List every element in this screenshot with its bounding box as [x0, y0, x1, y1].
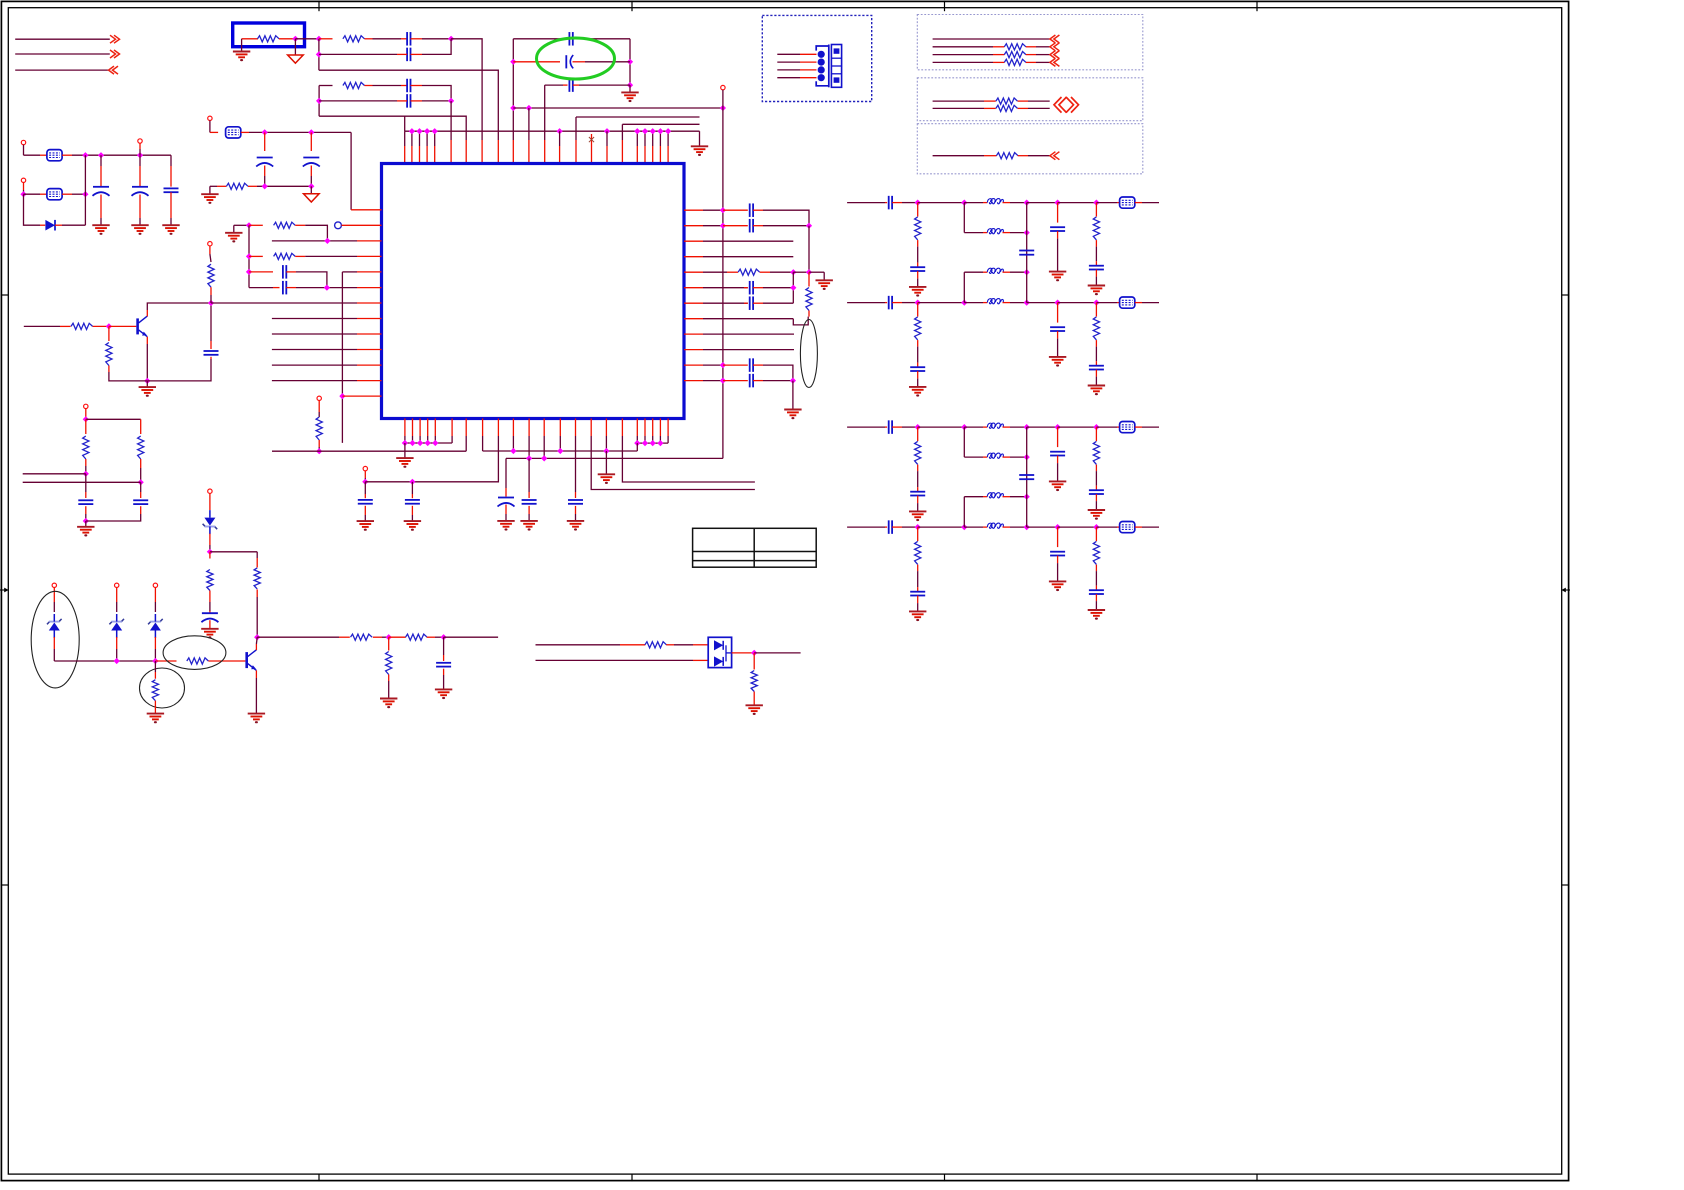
wire [506, 457, 723, 459]
junction [409, 479, 415, 485]
wire [933, 38, 1050, 40]
wire [450, 140, 452, 164]
wire (vertical) [544, 85, 546, 140]
off-page arrow [1050, 43, 1060, 51]
wire [411, 38, 423, 40]
ground [497, 521, 514, 531]
wire [763, 365, 793, 381]
resistor R_F21a [915, 541, 921, 564]
wire [777, 69, 800, 71]
wire [918, 302, 965, 304]
wire [382, 636, 389, 638]
wire [310, 132, 312, 151]
wire [139, 218, 141, 225]
wire [559, 146, 561, 164]
inductor L_F12 [987, 229, 1003, 234]
ground [435, 689, 452, 699]
wire [1117, 426, 1120, 428]
capacitor C_F10b [910, 267, 925, 271]
capacitor C3 [407, 79, 410, 93]
ground [909, 511, 926, 521]
junction [1093, 424, 1099, 430]
pin P6 [208, 489, 212, 493]
wire [800, 53, 817, 55]
wire [497, 140, 499, 164]
wire [847, 202, 885, 204]
wire [1010, 271, 1027, 273]
wire [1036, 61, 1050, 63]
wire [373, 38, 402, 40]
wire [917, 240, 919, 247]
wire [108, 366, 110, 373]
wire [703, 302, 748, 304]
capacitor C16 [750, 281, 753, 295]
wire [684, 271, 703, 273]
capacitor C_F21d [1050, 552, 1065, 556]
wire [575, 419, 577, 437]
wire [1095, 377, 1097, 386]
wire [388, 637, 390, 650]
wire (pin stub) [419, 436, 421, 443]
wire [1095, 240, 1097, 247]
ground [598, 474, 615, 484]
off-page arrow [1050, 51, 1060, 59]
wire [1003, 271, 1011, 273]
capacitor C_F11a [889, 296, 892, 310]
wire (pin stub) [659, 131, 661, 146]
ground [1049, 272, 1066, 282]
wire [964, 496, 983, 498]
ferrite bead FB3 [47, 189, 62, 200]
wire [100, 218, 102, 225]
wire [777, 53, 800, 55]
capacitor C26 (polarized) [132, 187, 149, 196]
wire [364, 471, 366, 478]
wire [434, 419, 436, 437]
wire (vertical) [318, 86, 320, 117]
capacitor C4 [407, 94, 410, 108]
junction [254, 634, 260, 640]
wire [1095, 471, 1097, 486]
capacitor C18 [750, 358, 753, 372]
wire (pin stub) [559, 131, 561, 146]
wire [211, 302, 357, 304]
wire [1057, 331, 1059, 339]
wire [1095, 370, 1097, 377]
wire [1135, 526, 1142, 528]
wire [505, 458, 507, 488]
junction [98, 152, 104, 158]
capacitor C_F21b [910, 592, 925, 596]
wire [140, 482, 142, 492]
wire (vertical) [963, 497, 965, 527]
junction [915, 524, 921, 530]
wire [422, 38, 451, 40]
off-page arrow (large right) [1066, 97, 1079, 113]
wire (vertical) [528, 108, 530, 140]
junction [83, 471, 89, 477]
wire [933, 107, 984, 109]
resistor R2 [343, 36, 365, 42]
wire [512, 140, 514, 164]
wire [1057, 563, 1059, 581]
junction [665, 128, 671, 134]
wire [703, 349, 794, 351]
inductor L_F10 [987, 199, 1003, 204]
wire [256, 558, 258, 568]
wire [109, 325, 136, 327]
junction [720, 362, 726, 368]
highlight ellipse (black) [140, 668, 185, 708]
resistor R11 [138, 436, 144, 459]
frame centre arrow left [0, 588, 9, 593]
wire [644, 419, 646, 437]
junction [308, 183, 314, 189]
wire [1010, 426, 1027, 428]
wire [1142, 302, 1159, 304]
wire (vertical) [963, 272, 965, 302]
junction [1024, 524, 1030, 530]
wire [964, 456, 983, 458]
wire (vertical) [808, 226, 810, 273]
wire [983, 456, 987, 458]
ground [1049, 581, 1066, 591]
wire [85, 419, 87, 434]
resistor R29 [996, 153, 1018, 159]
wire [85, 466, 87, 474]
junction [316, 51, 322, 57]
resistor R28 [996, 105, 1018, 111]
wire (pin stub) [412, 436, 414, 443]
pin P11 [138, 139, 142, 143]
wire [295, 38, 319, 40]
wire [933, 100, 984, 102]
wire [699, 131, 701, 146]
junction [425, 440, 431, 446]
wire [154, 649, 156, 661]
wire [497, 419, 499, 437]
ground [147, 714, 164, 724]
zener diode D3 [109, 614, 124, 638]
wire [629, 85, 631, 92]
wire [723, 209, 748, 211]
wire [1096, 302, 1117, 304]
wire [703, 380, 723, 382]
wire [1117, 526, 1120, 528]
wire [154, 637, 156, 649]
zener diode D2 [47, 614, 62, 638]
wire [644, 146, 646, 164]
pin P13 [363, 466, 367, 470]
wire (pin stub) [644, 131, 646, 146]
wire [723, 364, 748, 366]
junction [82, 152, 88, 158]
wire [917, 279, 919, 287]
capacitor C7 (polarized) [256, 158, 273, 167]
wire [482, 419, 484, 437]
wire [753, 287, 763, 289]
resistor R10 [83, 436, 89, 459]
wire [528, 492, 530, 498]
wire [917, 587, 919, 592]
wire [933, 54, 993, 56]
wire [249, 271, 273, 273]
wire [984, 155, 997, 157]
resistor R12 [738, 269, 760, 275]
wire (vertical) [350, 132, 352, 209]
wire [659, 419, 661, 437]
wire [823, 272, 825, 280]
wire [777, 77, 800, 79]
capacitor C14 [750, 203, 753, 217]
junction [262, 129, 268, 135]
wire [319, 116, 466, 140]
pin P5 [317, 396, 321, 400]
capacitor C22 [568, 500, 583, 504]
wire [357, 380, 382, 382]
wire [357, 287, 382, 289]
wire [575, 492, 577, 498]
wire [1026, 61, 1036, 63]
wire [636, 146, 638, 164]
wire (pin stub) [559, 436, 561, 451]
ground [380, 699, 397, 709]
ferrite bead FB_F20 [1120, 422, 1135, 433]
wire [1010, 302, 1027, 304]
wire [272, 380, 357, 382]
ground [621, 92, 638, 102]
wire [264, 176, 266, 186]
wire [984, 100, 996, 102]
wire [543, 419, 545, 437]
wire [255, 678, 257, 713]
resistor R9 [208, 264, 214, 287]
wire [1096, 202, 1117, 204]
wire [606, 146, 608, 164]
wire [351, 209, 381, 211]
capacitor C29 [405, 500, 420, 504]
wire [365, 85, 373, 87]
wire [703, 333, 794, 335]
resistor R_F11a [915, 317, 921, 340]
wire [85, 409, 87, 420]
junction [1054, 424, 1060, 430]
wire [753, 380, 763, 382]
highlight ellipse (black) [31, 591, 79, 688]
ground [909, 387, 926, 397]
ground [225, 233, 242, 243]
ground [233, 52, 250, 62]
wire [808, 311, 810, 317]
wire [404, 419, 406, 437]
dual diode D5 [708, 637, 731, 667]
wire [310, 186, 312, 194]
wire (vertical) [629, 39, 631, 85]
wire [684, 209, 703, 211]
connector J1 pad 3 [818, 66, 825, 73]
wire (bus) [405, 442, 452, 444]
highlight ellipse (black) [800, 320, 817, 388]
wire [419, 419, 421, 437]
wire [559, 419, 561, 437]
ground [92, 225, 109, 235]
wire [100, 195, 102, 219]
wire [342, 395, 381, 397]
ground [567, 521, 584, 531]
ground [909, 611, 926, 621]
capacitor C8 (polarized) [303, 158, 320, 167]
junction [806, 269, 812, 275]
wire [365, 481, 412, 483]
junction [1024, 229, 1030, 235]
wire [1095, 601, 1097, 610]
wire [513, 107, 723, 109]
capacitor C24 [436, 663, 451, 667]
terminator box A (dashed) [917, 15, 1143, 70]
wire [23, 473, 86, 475]
pin P12 [21, 178, 25, 182]
wire [917, 596, 919, 604]
capacitor C_F1m [1019, 251, 1034, 255]
wire [800, 61, 817, 63]
triangle ground [304, 194, 320, 202]
inductor L_F23 [987, 493, 1003, 498]
junction [207, 549, 213, 555]
junction [448, 98, 454, 104]
wire (pin stub) [644, 436, 646, 443]
wire [674, 644, 693, 646]
junction [961, 199, 967, 205]
wire [1095, 494, 1097, 501]
wire [342, 271, 357, 273]
wire [209, 552, 211, 559]
wire [573, 84, 579, 86]
wire [272, 349, 357, 351]
wire (vertical) [318, 39, 320, 70]
wire (pin stub) [636, 436, 638, 443]
ground [746, 705, 763, 715]
wire [917, 496, 919, 504]
ground [404, 521, 421, 531]
wire [273, 287, 280, 289]
wire (bus) [637, 442, 668, 444]
junction [915, 299, 921, 305]
IC U1 [382, 164, 685, 419]
wire [241, 39, 243, 52]
wire [1027, 526, 1058, 528]
wire [1003, 426, 1011, 428]
wire [255, 637, 258, 644]
wire [652, 419, 654, 437]
wire [55, 224, 62, 226]
junction [642, 128, 648, 134]
junction [790, 269, 796, 275]
capacitor C17 [750, 296, 753, 310]
wire [1057, 339, 1059, 357]
pin P4 [721, 85, 725, 89]
wire [847, 302, 885, 304]
wire [1095, 594, 1097, 601]
wire [357, 333, 382, 335]
wire [242, 38, 258, 40]
wire [40, 154, 47, 156]
wire [777, 61, 800, 63]
wire [528, 458, 530, 492]
wire [1003, 526, 1011, 528]
wire [116, 588, 118, 603]
wire [170, 192, 172, 218]
wire [917, 203, 919, 217]
transistor Q1 [138, 316, 148, 337]
wire [744, 302, 748, 304]
wire [209, 591, 211, 603]
off-page arrow [109, 66, 119, 74]
wire [575, 514, 577, 521]
wire [753, 225, 763, 227]
ground [1049, 357, 1066, 367]
terminator box B (dashed) [917, 78, 1143, 121]
wire [1026, 46, 1036, 48]
frame centre arrow right [1561, 588, 1570, 593]
wire (pin stub) [659, 436, 661, 443]
wire [1010, 526, 1027, 528]
wire [364, 482, 366, 494]
off-page arrow [1050, 58, 1060, 66]
wire [1095, 347, 1097, 362]
wire [1135, 426, 1142, 428]
junction [114, 658, 120, 664]
wire [342, 224, 382, 226]
junction [386, 634, 392, 640]
wire [576, 116, 700, 118]
junction [339, 393, 345, 399]
wire [1117, 302, 1120, 304]
resistor R16 [254, 568, 260, 589]
wire [310, 166, 312, 177]
wire [666, 644, 674, 646]
resistor R_F11b [1093, 317, 1099, 340]
wire [249, 224, 263, 226]
wire [209, 602, 211, 611]
wire [286, 271, 296, 273]
wire [753, 209, 763, 211]
wire [108, 326, 110, 341]
junction [720, 105, 726, 111]
wire [249, 131, 351, 133]
wire [1095, 571, 1097, 586]
wire (vertical V342) [341, 272, 343, 443]
wire [1057, 231, 1059, 239]
wire [892, 302, 902, 304]
wire [397, 53, 407, 55]
wire [793, 271, 809, 273]
ferrite bead FB1 [226, 127, 241, 138]
wire [591, 436, 755, 490]
wire [918, 202, 965, 204]
wire (vertical) [512, 39, 514, 108]
wire [723, 380, 748, 382]
wire [1003, 232, 1011, 234]
wire [573, 38, 579, 40]
wire [364, 494, 366, 498]
wire (pin stub) [411, 131, 413, 146]
wire [703, 240, 793, 242]
off-page arrow [110, 50, 120, 58]
wire [993, 61, 1004, 63]
wire [208, 660, 245, 662]
wire [155, 660, 176, 662]
off-page arrow [1050, 35, 1060, 43]
